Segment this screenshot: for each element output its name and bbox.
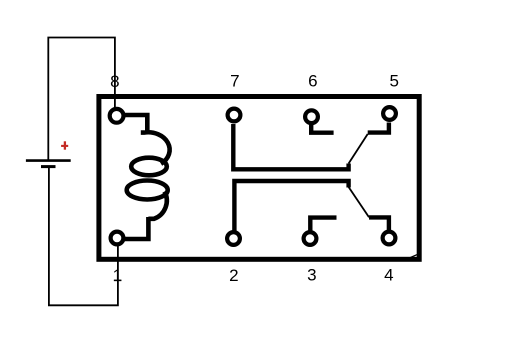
svg-text:1: 1 bbox=[113, 266, 122, 285]
svg-text:6: 6 bbox=[308, 72, 317, 91]
armature pin 2 to lower contact bar bbox=[234, 181, 348, 231]
wire battery positive to pin 8 bbox=[48, 38, 115, 160]
svg-text:5: 5 bbox=[389, 71, 398, 90]
battery + label bbox=[61, 141, 68, 149]
pin 6 contact hook bbox=[311, 125, 333, 133]
thin contact wire to pin 4 bbox=[349, 187, 369, 217]
pin 6 bbox=[305, 110, 318, 123]
relay body bbox=[99, 97, 419, 260]
corner slip mark bottom-right bbox=[411, 254, 419, 257]
svg-text:4: 4 bbox=[384, 265, 393, 284]
pin 4 bbox=[383, 232, 396, 245]
pin 5 bbox=[383, 107, 396, 120]
svg-text:7: 7 bbox=[230, 72, 239, 91]
pin 1 bbox=[111, 232, 124, 245]
pin 7 bbox=[228, 109, 241, 122]
armature pin 7 to upper contact bar bbox=[233, 124, 348, 169]
thin contact wire to pin 5 bbox=[349, 134, 368, 164]
svg-text:8: 8 bbox=[110, 72, 119, 91]
pin 3 contact hook bbox=[310, 218, 336, 231]
svg-text:3: 3 bbox=[307, 266, 316, 285]
pin 2 bbox=[227, 232, 240, 245]
pin 3 bbox=[304, 232, 317, 245]
svg-text:2: 2 bbox=[229, 266, 238, 285]
pin 8 bbox=[110, 109, 124, 123]
pin 5 lead bbox=[368, 123, 389, 133]
coil L1 bbox=[125, 115, 170, 239]
wire pin 1 to battery negative bbox=[49, 168, 118, 306]
pin 4 lead bbox=[369, 217, 389, 230]
battery BT1 bbox=[26, 159, 71, 162]
